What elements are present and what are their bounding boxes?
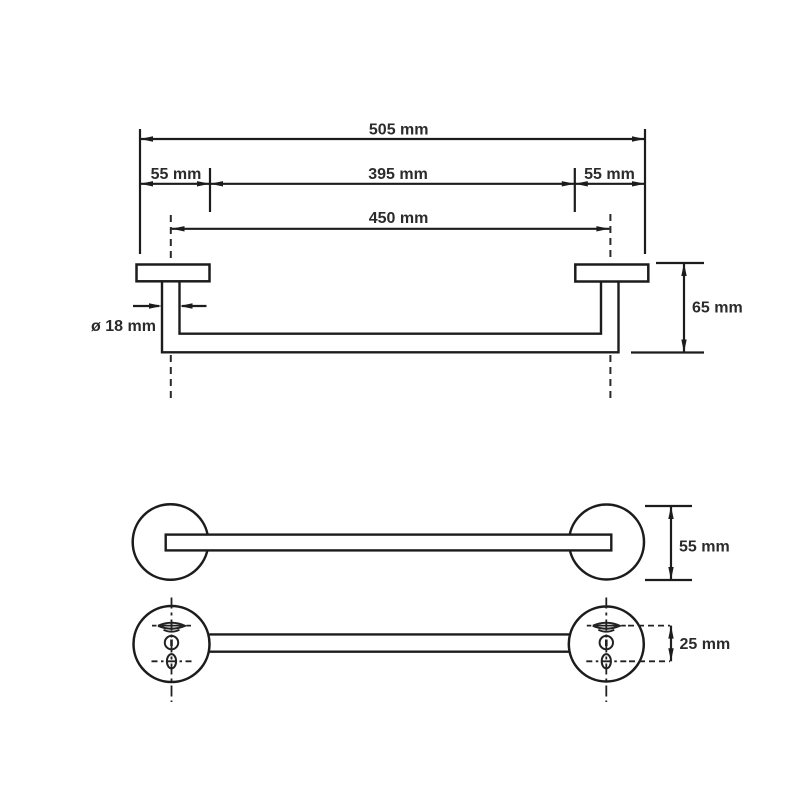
svg-text:395 mm: 395 mm bbox=[368, 166, 428, 183]
svg-text:25 mm: 25 mm bbox=[680, 636, 731, 653]
svg-text:55 mm: 55 mm bbox=[679, 539, 730, 556]
svg-text:65 mm: 65 mm bbox=[692, 300, 743, 317]
svg-text:55 mm: 55 mm bbox=[151, 166, 202, 183]
svg-text:505 mm: 505 mm bbox=[369, 122, 429, 139]
svg-text:450 mm: 450 mm bbox=[369, 210, 429, 227]
svg-text:ø 18 mm: ø 18 mm bbox=[91, 318, 156, 335]
svg-text:55 mm: 55 mm bbox=[584, 166, 635, 183]
